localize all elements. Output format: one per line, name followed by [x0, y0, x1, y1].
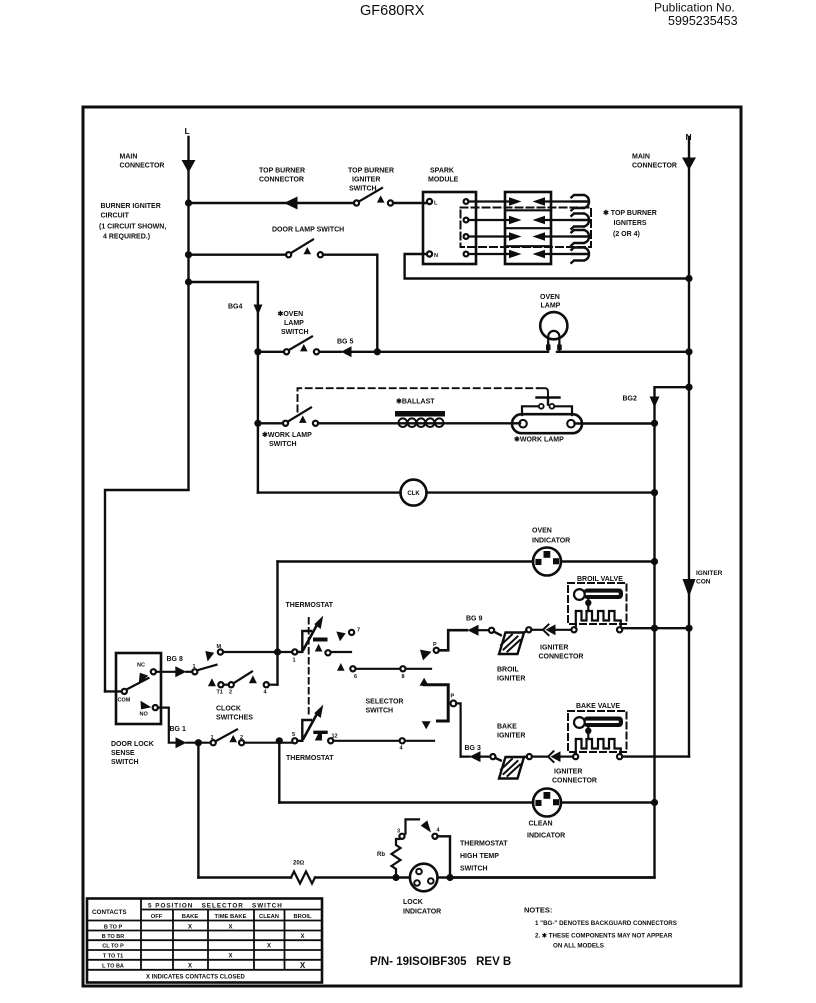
svg-text:THERMOSTAT: THERMOSTAT	[460, 841, 508, 848]
clock contact M wiper	[205, 651, 214, 662]
svg-text:Rb: Rb	[377, 852, 385, 858]
svg-text:MAIN: MAIN	[120, 154, 138, 161]
resistor Rb	[392, 839, 401, 878]
svg-text:GF680RX: GF680RX	[360, 3, 425, 19]
wire clock CLK line	[258, 491, 655, 493]
svg-text:✱BALLAST: ✱BALLAST	[396, 398, 435, 406]
wire spark row 4	[469, 253, 572, 255]
svg-text:(2 OR 4): (2 OR 4)	[613, 231, 640, 238]
wire work lamp line	[258, 422, 655, 425]
wire top burner igniter line	[189, 202, 427, 204]
top burner igniter switch S1	[354, 200, 359, 205]
svg-text:7: 7	[357, 628, 360, 634]
svg-text:X: X	[188, 924, 192, 930]
svg-text:8: 8	[402, 674, 405, 680]
svg-text:SWITCH: SWITCH	[111, 759, 139, 766]
svg-text:1: 1	[293, 658, 296, 664]
svg-text:BAKE: BAKE	[497, 724, 517, 731]
svg-text:NO: NO	[140, 712, 149, 718]
bake valve L2	[573, 754, 578, 759]
svg-text:Publication No.: Publication No.	[654, 1, 735, 15]
border frame	[83, 107, 741, 986]
svg-text:INDICATOR: INDICATOR	[527, 833, 565, 840]
wire lock indicator line	[198, 876, 654, 878]
spark gap arrows	[509, 197, 545, 258]
svg-text:B TO BR: B TO BR	[102, 934, 125, 940]
svg-text:5995235453: 5995235453	[668, 14, 738, 28]
svg-text:OVEN: OVEN	[532, 528, 552, 535]
svg-text:OFF: OFF	[151, 914, 163, 920]
dashed linkage work lamp	[298, 388, 539, 411]
selector row 6-8	[337, 663, 345, 671]
svg-text:OVEN: OVEN	[540, 294, 560, 301]
svg-text:IGNITER: IGNITER	[540, 645, 568, 652]
svg-text:P: P	[451, 694, 455, 700]
igniter connector broil	[531, 629, 542, 631]
svg-text:IGNITER: IGNITER	[497, 733, 525, 740]
svg-text:12: 12	[332, 734, 338, 740]
svg-text:4: 4	[264, 690, 268, 696]
svg-text:SWITCH: SWITCH	[460, 866, 488, 873]
svg-text:CONNECTOR: CONNECTOR	[552, 778, 597, 785]
igniter electrode E3	[571, 230, 589, 245]
node N supply line	[688, 137, 690, 757]
svg-text:BG2: BG2	[623, 396, 638, 403]
svg-text:BG 5: BG 5	[337, 339, 353, 346]
svg-text:BROIL VALVE: BROIL VALVE	[577, 576, 623, 583]
wire clean indicator line	[279, 801, 654, 803]
svg-text:LAMP: LAMP	[541, 303, 561, 310]
wire M to thermostat	[223, 651, 292, 653]
wire broil valve return	[622, 627, 689, 629]
BG8 connector arrow	[175, 666, 186, 677]
svg-text:LOCK: LOCK	[403, 899, 423, 906]
svg-text:X: X	[300, 961, 306, 970]
svg-text:4: 4	[400, 746, 404, 752]
wire NO to BG1	[158, 708, 175, 743]
spark module U1	[423, 192, 476, 264]
svg-text:1: 1	[211, 735, 214, 741]
svg-text:BG 3: BG 3	[465, 745, 481, 752]
clock contact 4	[264, 682, 269, 687]
svg-text:X: X	[300, 934, 304, 940]
wire spark module N return	[405, 254, 689, 279]
svg-text:LAMP: LAMP	[284, 320, 304, 327]
wire clock BG1 drop	[197, 743, 199, 878]
BG9 connector arrow	[468, 625, 479, 636]
spark gap box	[505, 192, 551, 264]
svg-text:2: 2	[229, 690, 232, 696]
svg-text:3: 3	[397, 829, 400, 835]
selector contact P upper	[420, 650, 432, 661]
svg-text:CONNECTOR: CONNECTOR	[539, 654, 584, 661]
svg-text:MAIN: MAIN	[632, 154, 650, 161]
svg-text:TOP BURNER: TOP BURNER	[259, 168, 305, 175]
wire COM feed	[105, 690, 122, 692]
BG5 connector arrow	[341, 346, 352, 357]
svg-text:2. ✱ THESE COMPONENTS MAY NOT: 2. ✱ THESE COMPONENTS MAY NOT APPEAR	[535, 933, 673, 940]
node L supply line	[105, 137, 189, 691]
svg-text:L: L	[185, 126, 190, 136]
svg-text:5: 5	[292, 732, 295, 738]
bake igniter R-BA	[490, 754, 495, 759]
svg-text:BG 9: BG 9	[466, 616, 482, 623]
svg-text:BG 1: BG 1	[170, 726, 186, 733]
work lamp LP2	[512, 414, 582, 433]
oven indicator IND1	[533, 548, 561, 576]
svg-text:6: 6	[354, 674, 357, 680]
svg-text:BROIL: BROIL	[497, 667, 520, 674]
svg-text:M: M	[217, 644, 222, 650]
svg-text:CONNECTOR: CONNECTOR	[120, 163, 165, 170]
oven lamp switch S3	[284, 349, 289, 354]
svg-text:X: X	[228, 924, 232, 930]
wire spark row 2	[469, 219, 572, 221]
door lamp switch S2	[286, 252, 291, 257]
svg-text:P: P	[433, 642, 437, 648]
svg-text:1 "BG-" DENOTES BACKGUARD: 1 "BG-" DENOTES BACKGUARD CONNECTORS	[535, 920, 677, 927]
svg-text:COM: COM	[118, 698, 131, 704]
svg-text:CONNECTOR: CONNECTOR	[259, 177, 304, 184]
svg-text:CLEAN: CLEAN	[259, 914, 279, 920]
svg-text:NOTES:: NOTES:	[524, 906, 552, 915]
thermostat T1 upper	[292, 649, 297, 654]
svg-text:4: 4	[437, 828, 441, 834]
BG3 connector arrow	[470, 751, 481, 762]
svg-text:SENSE: SENSE	[111, 750, 135, 757]
svg-text:B TO P: B TO P	[104, 924, 123, 930]
clock door switch contacts 1-2	[187, 742, 211, 744]
svg-text:T1: T1	[217, 690, 223, 696]
svg-text:P/N- 19ISOIBF305 REV B: P/N- 19ISOIBF305 REV B	[370, 956, 511, 968]
BG1 connector arrow	[176, 737, 187, 748]
igniter con arrow on N	[683, 579, 696, 597]
svg-text:NC: NC	[137, 663, 145, 669]
wire thermostat lower drop	[278, 741, 280, 803]
svg-text:BAKE VALVE: BAKE VALVE	[576, 703, 620, 710]
thermostat high temp switch S6	[399, 834, 404, 839]
svg-text:TOP BURNER: TOP BURNER	[348, 168, 394, 175]
svg-text:SWITCH: SWITCH	[366, 708, 394, 715]
svg-text:CLEAN: CLEAN	[529, 821, 553, 828]
svg-text:CONNECTOR: CONNECTOR	[632, 163, 677, 170]
ballast	[395, 411, 445, 417]
svg-text:L TO BA: L TO BA	[102, 963, 124, 969]
svg-text:DOOR LAMP SWITCH: DOOR LAMP SWITCH	[272, 227, 344, 234]
svg-text:BROIL: BROIL	[293, 914, 311, 920]
svg-text:L: L	[434, 201, 438, 207]
svg-text:T TO T1: T TO T1	[103, 954, 123, 960]
selector switch table	[87, 899, 322, 983]
svg-text:BAKE: BAKE	[182, 914, 199, 920]
resistor 20 ohm	[291, 872, 315, 884]
svg-text:4 REQUIRED.): 4 REQUIRED.)	[103, 234, 150, 241]
svg-text:N: N	[686, 132, 692, 142]
wire door lamp line	[189, 255, 377, 352]
wire high temp switch drop	[438, 836, 451, 877]
wire P to BG3	[456, 703, 460, 756]
svg-text:2: 2	[240, 735, 243, 741]
svg-text:ON ALL MODELS: ON ALL MODELS	[553, 943, 604, 950]
thermostat T2 lower	[292, 738, 297, 743]
wire bake valve return	[622, 755, 689, 757]
svg-text:X INDICATES CONTACTS CLOSED: X INDICATES CONTACTS CLOSED	[146, 975, 245, 981]
wire P to BG9	[439, 630, 467, 650]
svg-text:✱OVEN: ✱OVEN	[278, 310, 304, 318]
selector bracket P lower	[420, 678, 429, 686]
svg-text:IGNITERS: IGNITERS	[614, 220, 647, 227]
svg-text:✱ TOP BURNER: ✱ TOP BURNER	[603, 209, 657, 217]
clean indicator IND2	[533, 789, 561, 817]
svg-text:IGNITER: IGNITER	[352, 177, 380, 184]
wire NC to BG8	[156, 671, 175, 673]
lock indicator IND3	[410, 864, 438, 892]
svg-text:INDICATOR: INDICATOR	[403, 909, 441, 916]
svg-text:THERMOSTAT: THERMOSTAT	[286, 602, 334, 609]
svg-text:✱WORK LAMP: ✱WORK LAMP	[514, 436, 564, 444]
svg-text:X: X	[267, 944, 271, 950]
oven lamp LP1	[540, 312, 567, 339]
svg-text:(1 CIRCUIT SHOWN,: (1 CIRCUIT SHOWN,	[99, 224, 166, 231]
svg-text:N: N	[434, 253, 438, 259]
svg-text:DOOR LOCK: DOOR LOCK	[111, 741, 154, 748]
broil valve L1	[571, 627, 576, 632]
svg-text:MODULE: MODULE	[428, 177, 459, 184]
wire oven indicator line	[278, 560, 655, 562]
svg-text:X: X	[228, 954, 232, 960]
top burner connector arrow	[284, 197, 298, 210]
svg-text:20Ω: 20Ω	[293, 861, 305, 867]
wire BG2 jog and main right bus	[450, 387, 689, 877]
clock switch contact 1	[186, 671, 192, 673]
svg-text:✱WORK LAMP: ✱WORK LAMP	[262, 431, 312, 439]
svg-text:THERMOSTAT: THERMOSTAT	[286, 755, 334, 762]
wire thermostat feed vertical	[276, 562, 278, 685]
svg-text:CLOCK: CLOCK	[216, 706, 241, 713]
wire oven lamp line	[258, 351, 689, 353]
svg-text:TIME BAKE: TIME BAKE	[215, 914, 247, 920]
wire spark row 3	[469, 235, 572, 237]
igniter electrode E1	[571, 195, 589, 210]
igniter electrode E4	[571, 248, 589, 263]
svg-text:CON: CON	[696, 579, 711, 586]
svg-text:BG 8: BG 8	[167, 656, 183, 663]
wire spark row 1	[469, 200, 572, 202]
door lock sense switch S5	[116, 653, 161, 724]
igniter electrode E2	[571, 214, 589, 229]
svg-text:IGNITER: IGNITER	[497, 676, 525, 683]
main connector L arrow	[182, 160, 196, 173]
svg-text:SWITCH: SWITCH	[281, 329, 309, 336]
svg-text:SWITCH: SWITCH	[349, 186, 377, 193]
dashed box top burner igniters	[461, 208, 592, 248]
svg-text:IGNITER: IGNITER	[696, 570, 723, 577]
igniter connector bake	[532, 755, 547, 757]
svg-text:CLK: CLK	[407, 491, 420, 497]
svg-text:INDICATOR: INDICATOR	[532, 538, 570, 545]
svg-text:CONTACTS: CONTACTS	[92, 909, 127, 916]
work lamp switch S4	[283, 421, 288, 426]
svg-text:SWITCHES: SWITCHES	[216, 715, 253, 722]
svg-text:X: X	[188, 963, 192, 969]
main connector N arrow	[682, 158, 696, 171]
wire BG4 branch	[189, 282, 258, 493]
svg-text:BURNER IGNITER: BURNER IGNITER	[101, 203, 161, 210]
selector contact 7	[336, 632, 345, 642]
BG4 connector arrow	[254, 305, 263, 316]
BG2 connector arrow	[650, 397, 660, 408]
svg-text:1: 1	[193, 664, 196, 670]
clock lower contacts T1 2	[208, 678, 216, 686]
svg-text:SWITCH: SWITCH	[269, 441, 297, 448]
svg-text:5 POSITION SELECTOR SWITC: 5 POSITION SELECTOR SWITCH	[148, 903, 283, 910]
clock motor CLK	[401, 480, 427, 506]
svg-text:BG4: BG4	[228, 304, 243, 311]
thermostat linkage dashed	[308, 618, 310, 716]
svg-text:CL TO P: CL TO P	[102, 944, 124, 950]
svg-text:HIGH TEMP: HIGH TEMP	[460, 853, 499, 860]
svg-text:CIRCUIT: CIRCUIT	[101, 213, 130, 220]
svg-text:SELECTOR: SELECTOR	[366, 699, 404, 706]
svg-text:SPARK: SPARK	[430, 168, 454, 175]
broil igniter R-BR	[489, 628, 494, 633]
svg-text:IGNITER: IGNITER	[554, 769, 582, 776]
